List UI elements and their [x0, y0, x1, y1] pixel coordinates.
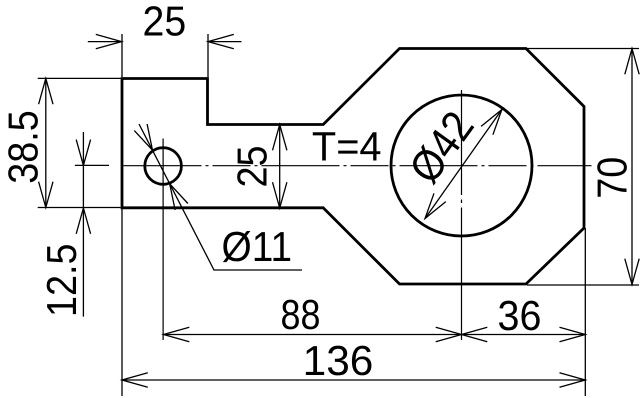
- svg-text:36: 36: [498, 292, 542, 339]
- svg-text:T=4: T=4: [312, 124, 382, 170]
- svg-text:25: 25: [229, 145, 276, 187]
- svg-text:12.5: 12.5: [38, 243, 85, 317]
- svg-text:70: 70: [589, 157, 636, 199]
- svg-text:38.5: 38.5: [0, 110, 46, 184]
- svg-text:Ø11: Ø11: [222, 223, 293, 270]
- svg-text:88: 88: [281, 291, 321, 338]
- svg-text:25: 25: [143, 0, 187, 45]
- svg-text:136: 136: [303, 337, 374, 384]
